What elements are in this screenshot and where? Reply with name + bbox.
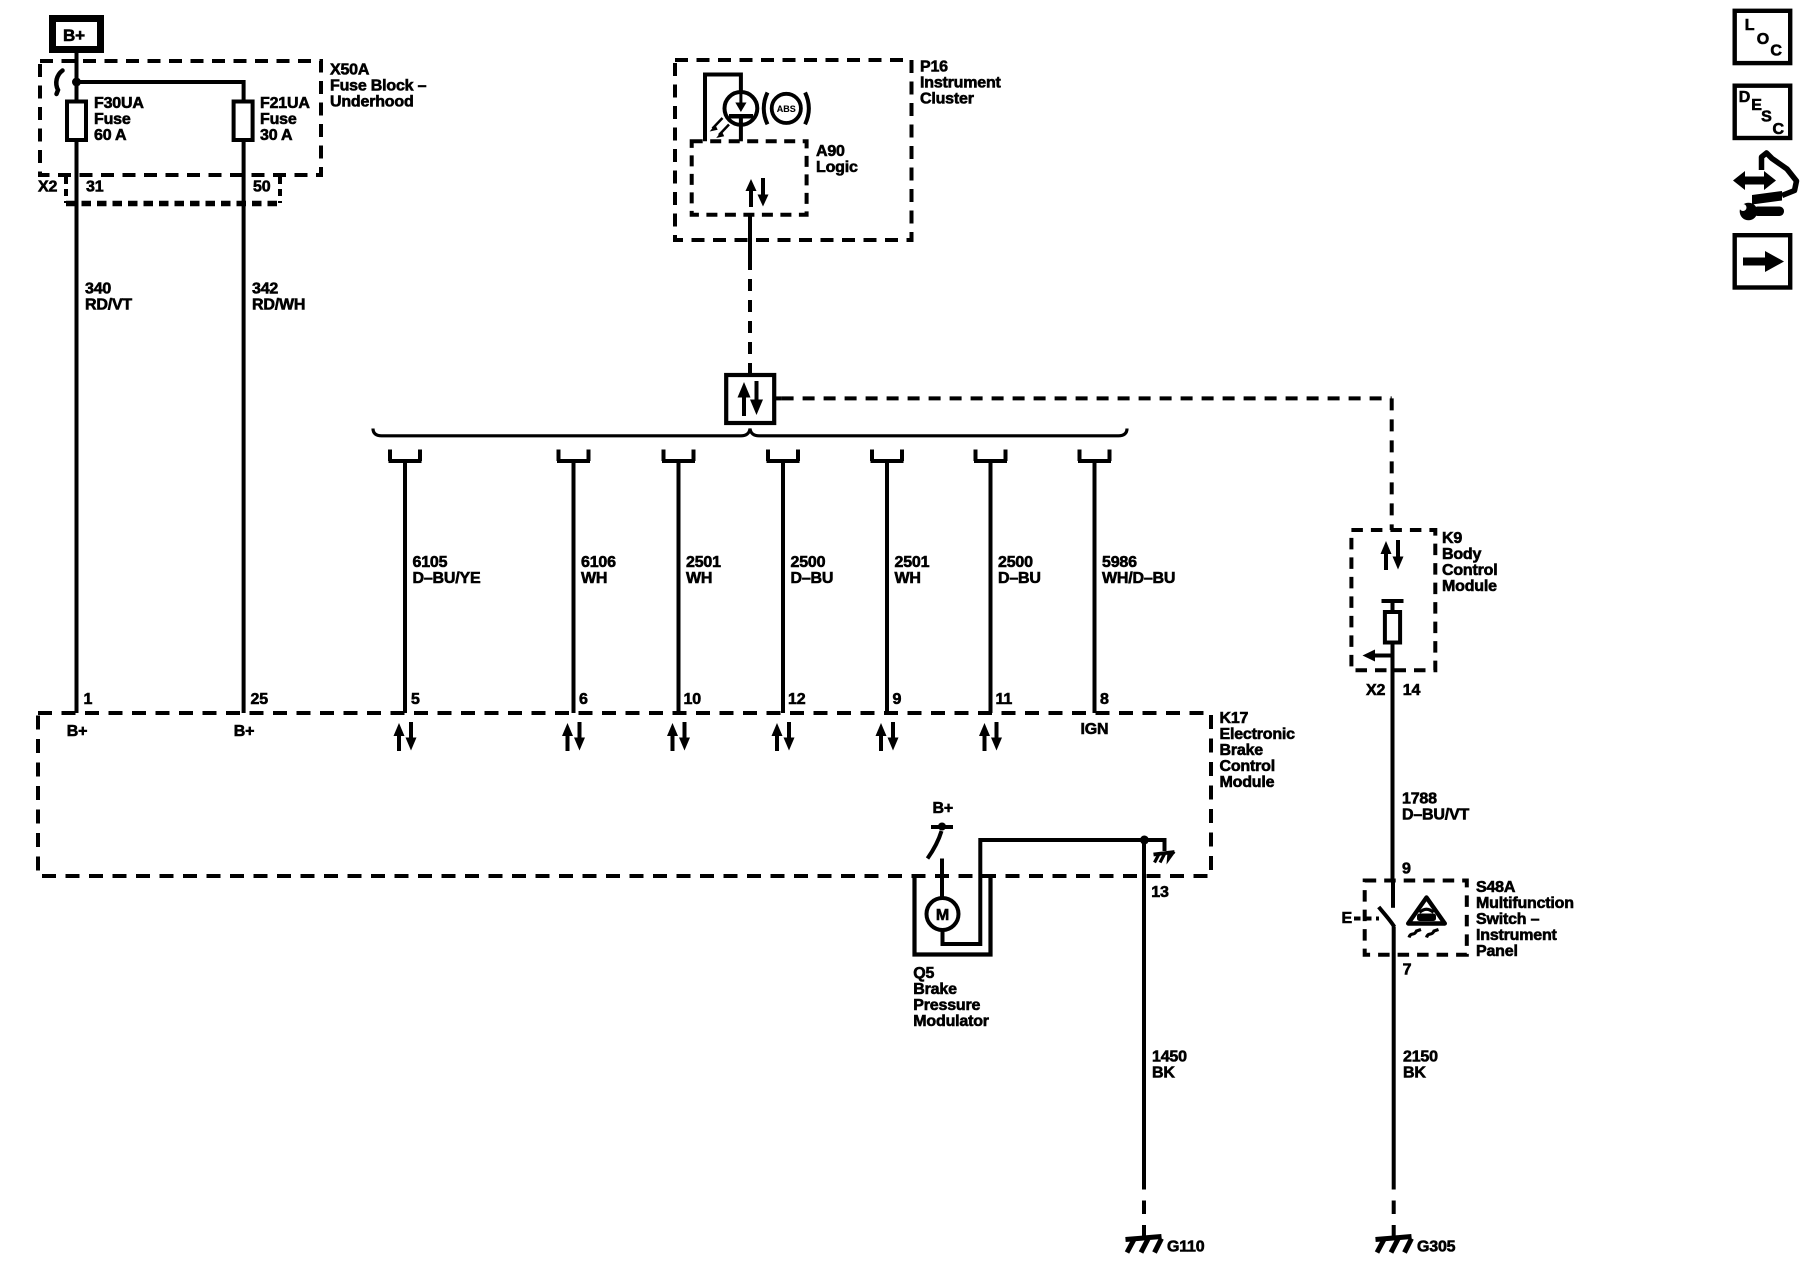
- K17 electronic brake control module box: [38, 713, 1211, 876]
- icon DESC box: [1735, 86, 1791, 139]
- svg-text:X50A: X50A: [330, 62, 370, 79]
- ABS legend symbol: [764, 93, 809, 125]
- svg-text:9: 9: [893, 691, 902, 708]
- svg-text:E: E: [1342, 910, 1353, 927]
- svg-text:G110: G110: [1167, 1239, 1205, 1256]
- junction dot B+: [938, 823, 946, 831]
- relay switch blade: [928, 831, 942, 859]
- K17 label: [1220, 710, 1296, 791]
- wire 340 RD/VT: [77, 140, 133, 713]
- lamp feed loop wire: [705, 75, 741, 142]
- terminal tap 1: [389, 450, 422, 462]
- bus wire to fuse F21UA: [77, 82, 244, 102]
- traction control icon: [1408, 898, 1445, 938]
- svg-text:BK: BK: [1403, 1064, 1426, 1081]
- connector X2 of fuse block: [38, 177, 282, 204]
- P16 instrument cluster box: [675, 60, 912, 240]
- svg-text:M: M: [936, 907, 949, 924]
- svg-text:RD/VT: RD/VT: [85, 297, 132, 314]
- terminal tap 7: [1078, 450, 1111, 462]
- splice pack box: [726, 367, 781, 423]
- terminal tap 3: [662, 450, 695, 462]
- svg-text:10: 10: [684, 691, 702, 708]
- svg-text:31: 31: [86, 179, 104, 196]
- junction dot pin13: [1140, 836, 1149, 845]
- icon next arrow box: [1735, 235, 1791, 287]
- svg-text:Instrument: Instrument: [920, 75, 1002, 92]
- motor M of Q5: [927, 898, 959, 930]
- bus bar symbol: [56, 71, 62, 95]
- Q5 enclosure box: [915, 877, 991, 955]
- svg-text:Fuse Block –: Fuse Block –: [330, 78, 427, 95]
- icon LOC box: [1735, 11, 1791, 63]
- driver output arrow: [1363, 650, 1393, 662]
- svg-text:X2: X2: [1366, 682, 1385, 699]
- svg-text:WH: WH: [895, 570, 921, 587]
- svg-text:9: 9: [1402, 861, 1411, 878]
- svg-text:S48A: S48A: [1476, 879, 1516, 896]
- svg-text:F30UA: F30UA: [94, 95, 144, 112]
- svg-text:P16: P16: [920, 59, 948, 76]
- svg-text:25: 25: [251, 691, 269, 708]
- svg-text:Pressure: Pressure: [913, 997, 980, 1014]
- svg-text:C: C: [1773, 121, 1785, 138]
- svg-text:2501: 2501: [686, 554, 721, 571]
- terminal tap 2: [557, 450, 590, 462]
- svg-text:Brake: Brake: [913, 981, 957, 998]
- svg-text:2500: 2500: [791, 554, 826, 571]
- svg-text:B+: B+: [234, 723, 255, 740]
- svg-text:60 A: 60 A: [94, 127, 127, 144]
- svg-text:B+: B+: [67, 723, 88, 740]
- svg-text:D: D: [1739, 89, 1750, 106]
- arrows pin9: [876, 722, 899, 751]
- svg-text:O: O: [1757, 31, 1769, 48]
- svg-text:1788: 1788: [1402, 790, 1437, 807]
- svg-text:Control: Control: [1220, 758, 1275, 775]
- svg-text:D–BU: D–BU: [791, 570, 834, 587]
- svg-text:2501: 2501: [895, 554, 930, 571]
- svg-text:7: 7: [1403, 962, 1412, 979]
- K9 serial data arrows: [1381, 540, 1404, 570]
- wire K9 pin14 down: [1391, 656, 1395, 881]
- A90 logic box: [692, 141, 807, 214]
- A90 label: [816, 143, 858, 176]
- wire 2500 D-BU b: [991, 461, 1041, 713]
- A90 serial data arrows: [746, 178, 769, 207]
- motor return wire loop: [943, 840, 1165, 944]
- svg-text:Switch –: Switch –: [1476, 911, 1540, 928]
- ground G305: [1376, 1237, 1456, 1256]
- wire A90 to splice stub: [748, 215, 752, 258]
- svg-text:Electronic: Electronic: [1220, 726, 1296, 743]
- svg-text:5986: 5986: [1102, 554, 1137, 571]
- svg-text:Instrument: Instrument: [1476, 927, 1558, 944]
- wire 5986 WH/D-BU: [1095, 461, 1176, 713]
- svg-text:6105: 6105: [413, 554, 448, 571]
- lamp light rays: [710, 118, 729, 138]
- svg-text:2500: 2500: [998, 554, 1033, 571]
- arrows pin11: [979, 722, 1002, 751]
- svg-text:30 A: 30 A: [260, 127, 293, 144]
- wire switch to motor: [940, 859, 944, 900]
- wire 1450 BK: [1144, 840, 1187, 1176]
- brace bus split: [373, 429, 1127, 436]
- terminal tap 4: [767, 450, 800, 462]
- svg-text:D–BU/VT: D–BU/VT: [1402, 806, 1469, 823]
- svg-text:B+: B+: [63, 26, 85, 45]
- svg-text:Body: Body: [1442, 546, 1482, 563]
- wire 342 RD/WH: [244, 140, 306, 713]
- svg-text:C: C: [1770, 43, 1782, 60]
- dashed tail to G110: [1142, 1176, 1146, 1236]
- ground G110: [1126, 1237, 1205, 1256]
- P16 label: [920, 59, 1002, 108]
- svg-text:A90: A90: [816, 143, 845, 160]
- svg-text:Brake: Brake: [1220, 742, 1264, 759]
- svg-text:1: 1: [84, 691, 93, 708]
- wire 2501 WH b: [887, 461, 930, 713]
- svg-text:340: 340: [85, 281, 111, 298]
- svg-text:IGN: IGN: [1081, 721, 1109, 738]
- arrows pin6: [562, 722, 585, 751]
- svg-text:G305: G305: [1417, 1239, 1456, 1256]
- svg-text:50: 50: [253, 179, 271, 196]
- svg-text:S: S: [1761, 109, 1772, 126]
- wire 6106 WH: [574, 461, 617, 713]
- arrows pin12: [772, 722, 795, 751]
- svg-text:D–BU: D–BU: [998, 570, 1041, 587]
- icon wrench: [1733, 198, 1784, 220]
- power symbol B+ box: [53, 19, 101, 50]
- arrows pin5: [394, 722, 417, 751]
- K9 label: [1442, 530, 1497, 595]
- svg-text:K17: K17: [1220, 710, 1249, 727]
- B+ terminal bar: [931, 825, 953, 829]
- svg-text:6: 6: [579, 691, 588, 708]
- svg-text:Fuse: Fuse: [260, 111, 297, 128]
- svg-text:D–BU/YE: D–BU/YE: [413, 570, 481, 587]
- terminal tap 6: [974, 450, 1007, 462]
- svg-text:13: 13: [1151, 884, 1169, 901]
- splice pack arrows: [738, 381, 764, 416]
- svg-text:Control: Control: [1442, 562, 1497, 579]
- svg-text:6106: 6106: [581, 554, 616, 571]
- wire 2501 WH: [679, 461, 722, 713]
- svg-text:342: 342: [252, 281, 278, 298]
- svg-text:RD/WH: RD/WH: [252, 297, 305, 314]
- svg-text:Module: Module: [1442, 578, 1497, 595]
- K9 driver element: [1382, 601, 1404, 656]
- node E external: [1342, 910, 1380, 927]
- svg-text:WH: WH: [686, 570, 712, 587]
- wire S48A pin9 to switch contact: [1391, 881, 1395, 908]
- wire 1788 D-BU/VT label: [1402, 790, 1469, 823]
- K9 body control module box: [1351, 530, 1435, 670]
- svg-text:B+: B+: [933, 800, 954, 817]
- svg-text:Module: Module: [1220, 774, 1275, 791]
- X50A label: [330, 62, 427, 111]
- svg-text:14: 14: [1403, 682, 1421, 699]
- terminal tap 5: [871, 450, 904, 462]
- svg-text:X2: X2: [38, 179, 57, 196]
- wire B+ feed to fuse F30UA: [75, 53, 79, 102]
- S48A switch blade: [1379, 907, 1395, 927]
- svg-text:8: 8: [1100, 691, 1109, 708]
- dashed serial data wire down: [748, 258, 752, 367]
- Q5 label: [913, 965, 989, 1030]
- serial data bus dashed wire to K9: [782, 398, 1392, 530]
- X50A fuse block box: [40, 61, 321, 175]
- svg-text:Cluster: Cluster: [920, 91, 974, 108]
- fuse F21UA: [234, 95, 311, 144]
- svg-text:1450: 1450: [1152, 1048, 1187, 1065]
- ABS indicator lamp: [725, 92, 758, 141]
- fuse F30UA: [67, 95, 144, 144]
- svg-text:K9: K9: [1442, 530, 1462, 547]
- svg-text:Fuse: Fuse: [94, 111, 131, 128]
- junction node: [72, 78, 81, 87]
- dashed tail to G305: [1392, 1176, 1396, 1236]
- wire 2150 BK: [1394, 927, 1438, 1177]
- svg-text:11: 11: [996, 691, 1013, 708]
- svg-text:Underhood: Underhood: [330, 94, 414, 111]
- svg-text:ABS: ABS: [777, 104, 796, 114]
- svg-text:5: 5: [411, 691, 420, 708]
- chassis ground at K17: [1154, 852, 1176, 865]
- svg-text:WH: WH: [581, 570, 607, 587]
- svg-text:Q5: Q5: [913, 965, 934, 982]
- svg-text:Modulator: Modulator: [913, 1013, 989, 1030]
- icon harness routing: [1733, 153, 1797, 205]
- S48A label: [1476, 879, 1574, 960]
- wire 6105 D-BU/YE: [405, 461, 481, 713]
- svg-text:WH/D–BU: WH/D–BU: [1102, 570, 1175, 587]
- svg-text:F21UA: F21UA: [260, 95, 310, 112]
- wire 2500 D-BU: [783, 461, 833, 713]
- svg-text:Multifunction: Multifunction: [1476, 895, 1574, 912]
- svg-text:2150: 2150: [1403, 1048, 1438, 1065]
- arrows pin10: [667, 722, 690, 751]
- svg-text:Logic: Logic: [816, 159, 858, 176]
- svg-text:Panel: Panel: [1476, 943, 1518, 960]
- svg-text:L: L: [1745, 17, 1755, 34]
- S48A multifunction switch box: [1365, 881, 1467, 955]
- svg-text:12: 12: [788, 691, 806, 708]
- svg-text:BK: BK: [1152, 1064, 1175, 1081]
